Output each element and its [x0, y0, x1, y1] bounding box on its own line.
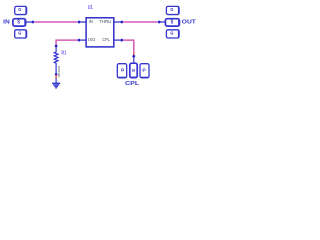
wire CPL to probe	[123, 40, 134, 52]
wire into CPL probe S pad	[133, 57, 135, 62]
junction node at U1 ISO pin	[78, 39, 81, 42]
pin stub of output S pad	[161, 21, 166, 23]
junction node at U1 IN pin	[78, 21, 81, 24]
svg-text:THRU: THRU	[99, 19, 111, 24]
pin name IN	[89, 19, 93, 24]
net label OUT	[182, 19, 197, 25]
resistor R1	[54, 47, 58, 74]
pin stub (ISO) of U1	[80, 39, 86, 41]
junction node at CPL probe S pad	[132, 55, 135, 58]
svg-text:U1: U1	[88, 5, 93, 11]
net label IN	[3, 19, 10, 25]
pin stub (THRU) of U1	[114, 21, 121, 23]
reference designator U1	[88, 5, 93, 11]
probe pad S left (input signal pad)	[13, 19, 26, 26]
probe pad G right (coupled port)	[140, 64, 149, 78]
probe pad G left (coupled port)	[117, 64, 126, 78]
pin name CPL	[102, 37, 110, 42]
probe pad S right (output signal pad)	[165, 19, 179, 26]
wire THRU to OUT	[123, 21, 158, 23]
junction node at R1 bottom pin	[55, 73, 58, 76]
probe pad G bottom-left	[15, 30, 27, 38]
junction node at U1 CPL pin	[120, 39, 123, 42]
pin name THRU	[99, 19, 111, 24]
wire R1 to ground	[55, 78, 57, 83]
pin stub (red) at CPL probe	[133, 53, 135, 56]
probe pad G bottom-right	[166, 30, 179, 38]
junction node at U1 THRU pin	[120, 21, 123, 24]
pin stub (CPL) of U1	[114, 39, 121, 41]
svg-text:ISO: ISO	[88, 37, 95, 42]
value label R=50 Ohm (rotated)	[57, 66, 61, 78]
junction node at R1 top	[55, 45, 58, 48]
reference designator R1	[61, 50, 66, 56]
pin stub (red) of R1 bottom	[55, 75, 57, 78]
svg-text:CPL: CPL	[102, 37, 110, 42]
svg-text:R=50 Ohm: R=50 Ohm	[57, 66, 61, 78]
ground	[52, 83, 60, 88]
svg-text:IN: IN	[3, 19, 10, 25]
junction node at output S pad	[158, 21, 161, 24]
junction node at input S pad	[31, 21, 34, 24]
probe pad S (coupled port)	[130, 63, 137, 77]
svg-text:G: G	[18, 31, 21, 37]
svg-text:R1: R1	[61, 50, 66, 56]
pin 1 stub (IN) of U1	[80, 21, 86, 23]
wire IN to U1	[34, 21, 77, 23]
svg-text:IN: IN	[89, 19, 93, 24]
probe pad G top-right	[166, 6, 179, 14]
coupler U1 body	[86, 18, 114, 47]
pin stub of input S pad	[26, 21, 32, 23]
svg-text:CPL: CPL	[125, 81, 140, 87]
svg-text:OUT: OUT	[182, 19, 197, 25]
svg-text:G: G	[18, 7, 21, 13]
svg-text:S: S	[131, 69, 136, 72]
net label CPL	[125, 81, 140, 87]
wire ISO to R1	[56, 40, 78, 45]
pin name ISO	[88, 37, 95, 42]
svg-text:G: G	[170, 7, 173, 13]
svg-text:G: G	[170, 31, 173, 37]
probe pad G top-left	[15, 6, 27, 14]
